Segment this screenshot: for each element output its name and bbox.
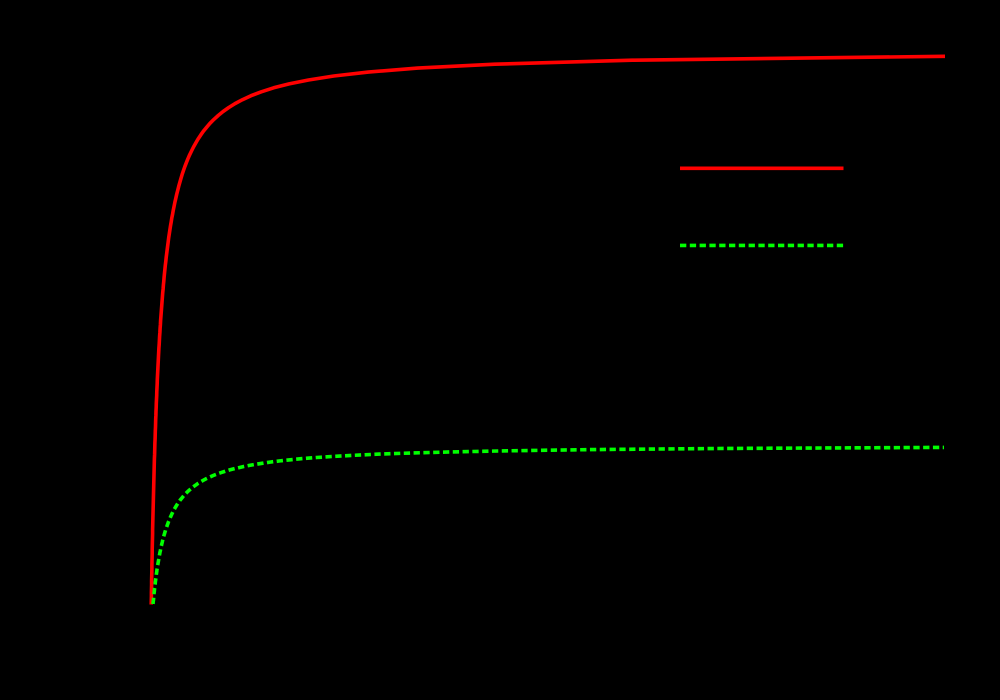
legend sample: green dashed line: [680, 244, 844, 248]
green dashed curve (series 2): [153, 447, 944, 604]
red solid curve (series 1): [151, 56, 945, 604]
legend sample: red solid line: [680, 167, 844, 171]
